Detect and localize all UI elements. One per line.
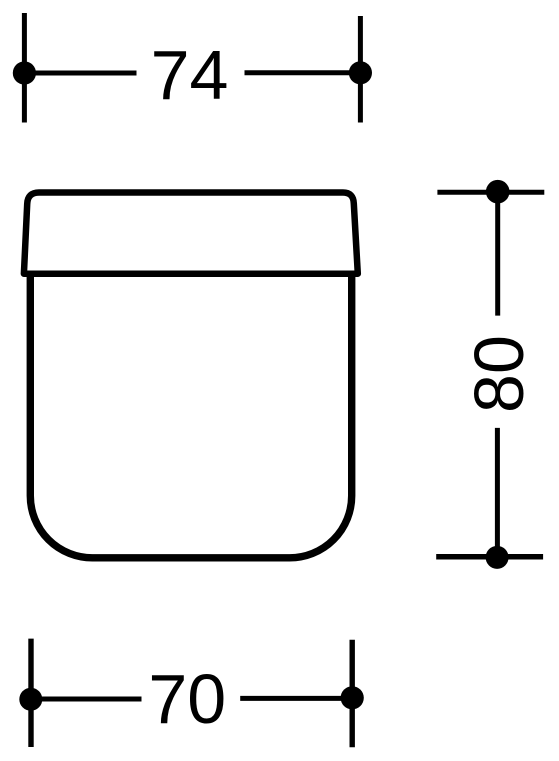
bottom dimension 70: right dot: [341, 686, 364, 709]
right dimension 80: top extension line: [437, 190, 544, 195]
bottom dimension 70: left extension line: [28, 639, 33, 747]
right dimension 80: bottom extension line: [436, 554, 543, 560]
bottom dimension 70: dimension line left segment: [31, 697, 142, 702]
container lid/rim outline: [24, 193, 358, 274]
top dimension 74: dimension line right segment: [245, 70, 361, 75]
top dimension 74: left dot: [13, 61, 36, 84]
right dimension 80: dimension line upper segment: [495, 192, 500, 316]
top dimension 74: dimension line left segment: [24, 71, 136, 76]
right dimension 80: top dot: [486, 180, 510, 204]
bottom dimension 70: left dot: [19, 688, 42, 711]
svg-text:70: 70: [148, 660, 226, 738]
container body outline: [30, 277, 351, 558]
top dimension 74: right dot: [349, 61, 372, 84]
svg-text:74: 74: [151, 36, 229, 114]
right dimension 80: bottom dot: [486, 546, 509, 569]
top dimension 74: right extension line: [358, 16, 363, 123]
top dimension 74: left extension line: [22, 13, 27, 123]
bottom dimension 70: dimension line right segment: [240, 696, 352, 701]
svg-text:80: 80: [460, 335, 538, 413]
right dimension 80: dimension line lower segment: [495, 428, 500, 558]
bottom dimension 70: right extension line: [350, 640, 355, 747]
